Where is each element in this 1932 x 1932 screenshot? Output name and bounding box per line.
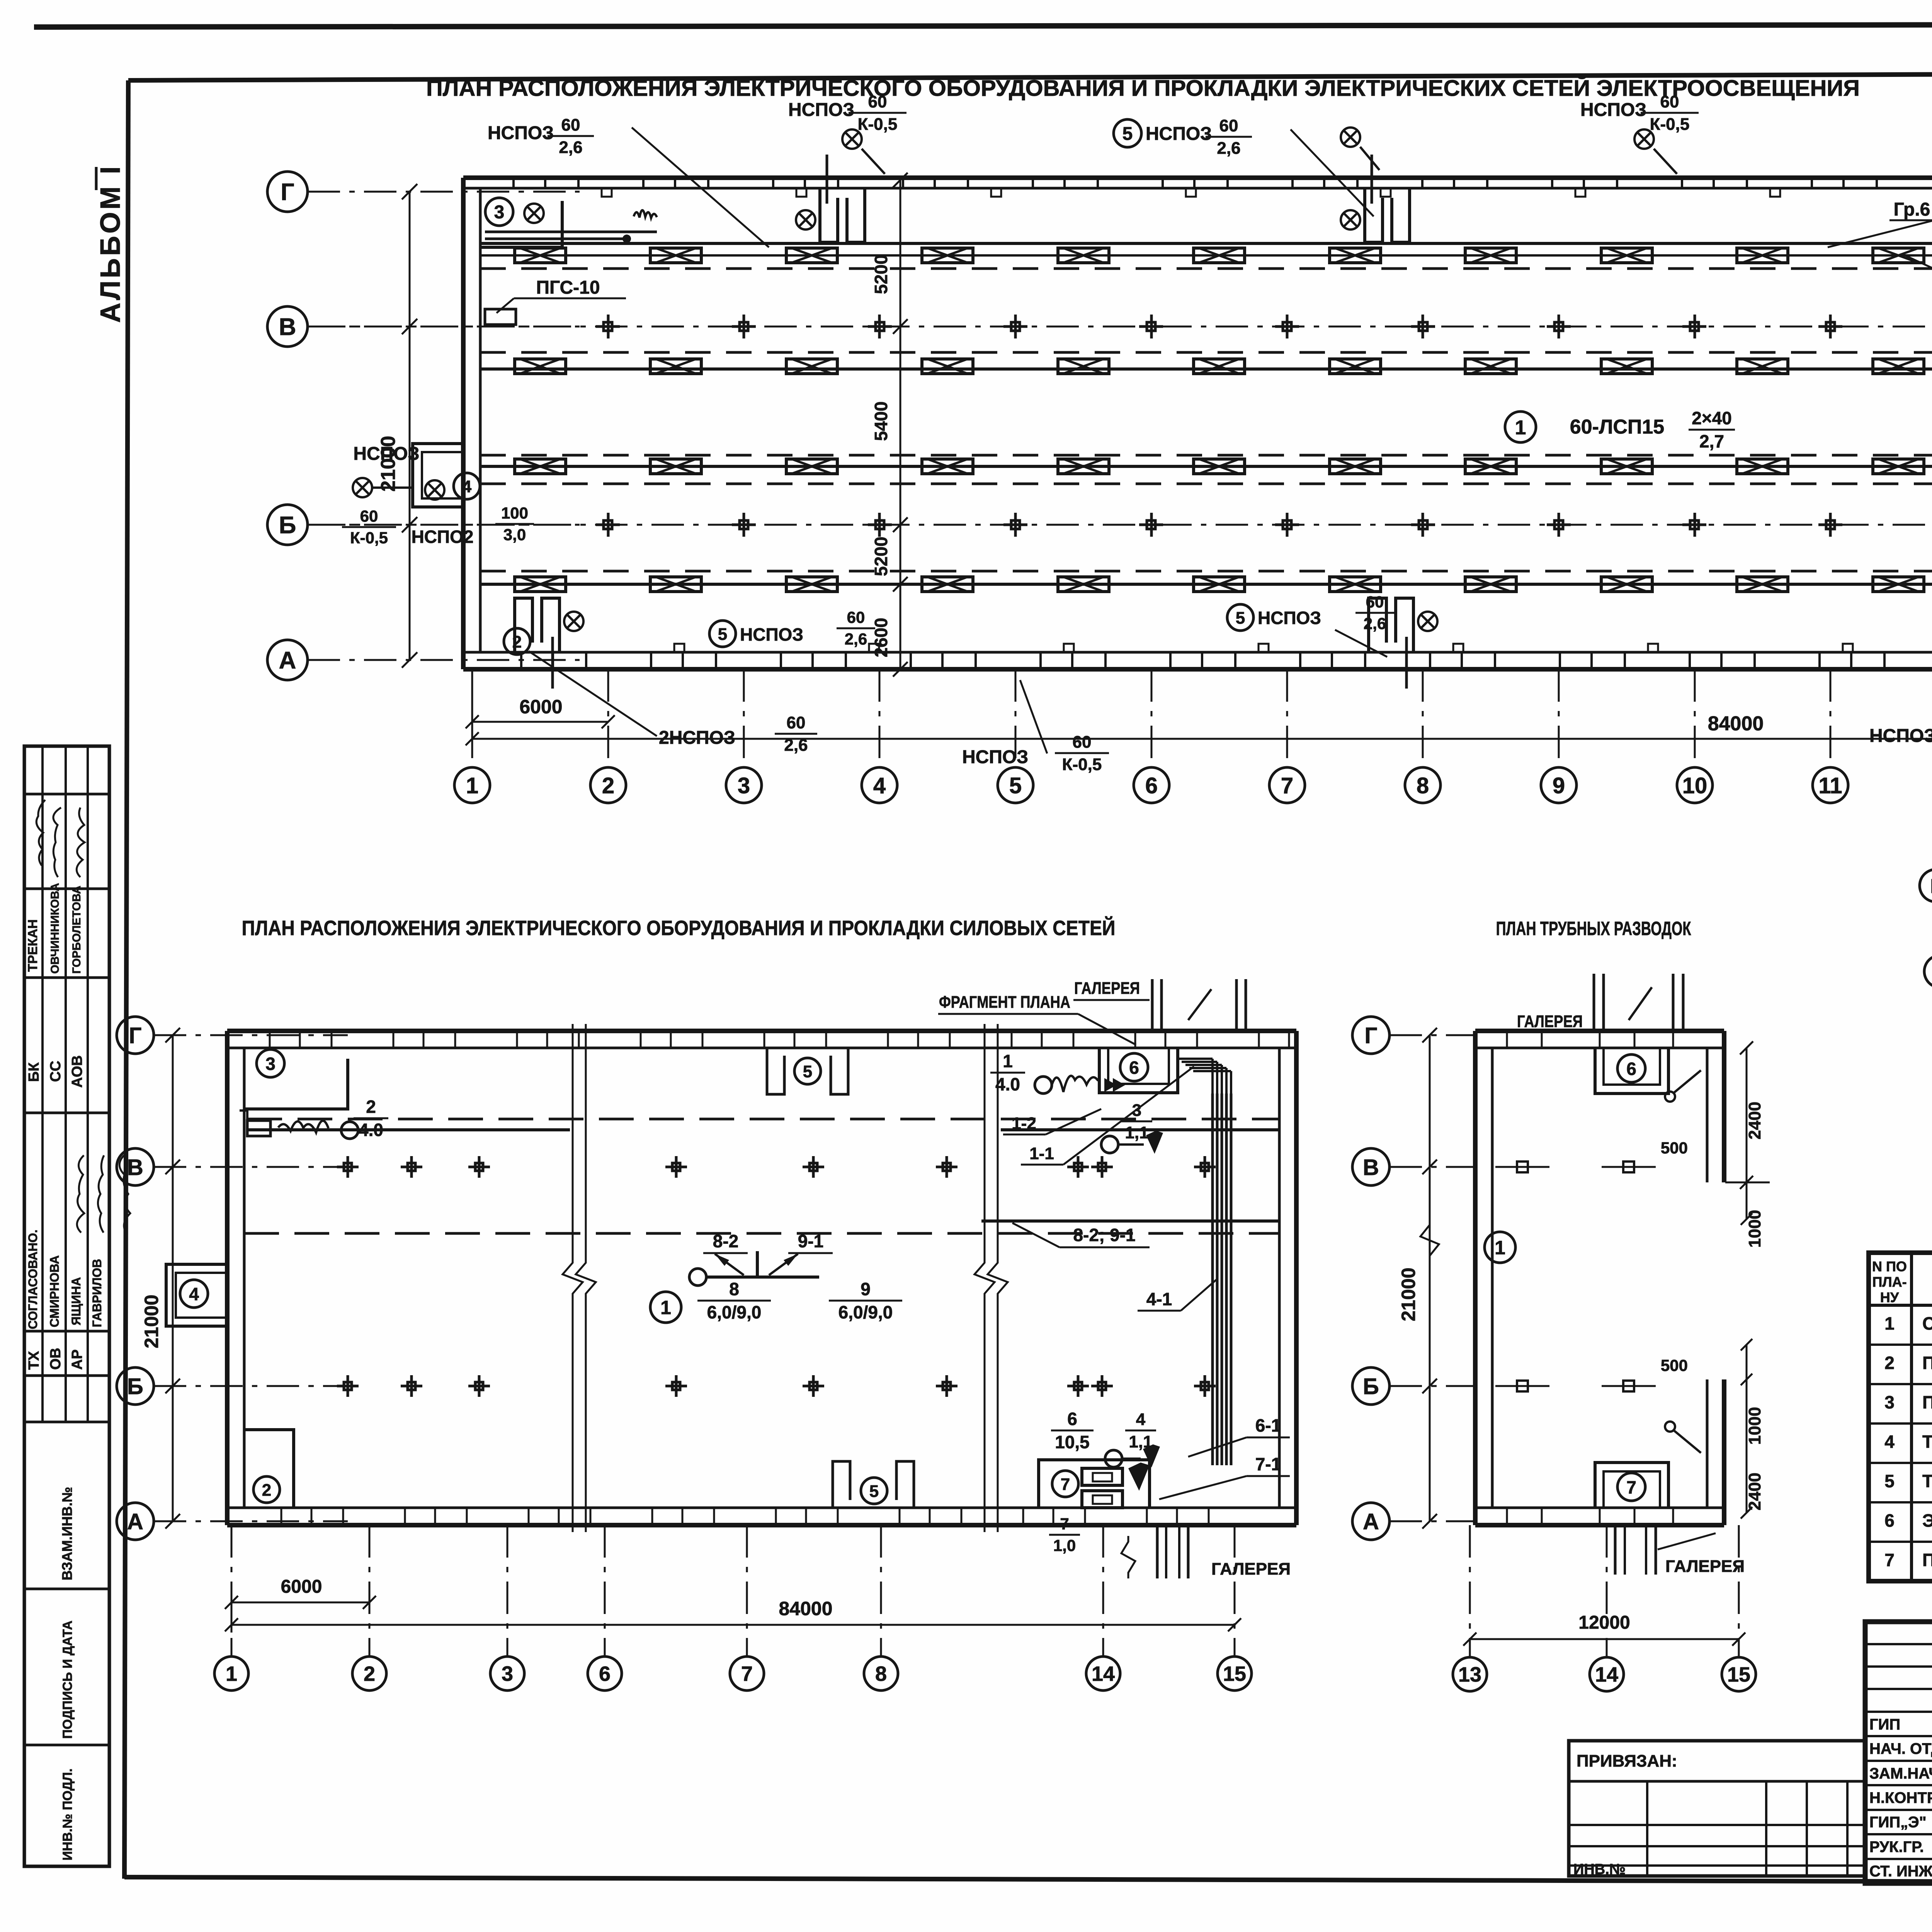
svg-text:ПРИВЯЗАН:: ПРИВЯЗАН: (1577, 1752, 1677, 1770)
svg-text:6,0/9,0: 6,0/9,0 (707, 1302, 762, 1322)
plan2 center distribution tree (689, 1269, 706, 1286)
plan3 left dim 21000 (1352, 1017, 1389, 1054)
svg-text:14: 14 (1595, 1663, 1618, 1686)
svg-text:1: 1 (1003, 1051, 1013, 1071)
dimension line 84000 top plan (472, 738, 1932, 740)
svg-text:7: 7 (1061, 1475, 1070, 1494)
svg-text:60: 60 (1073, 733, 1092, 752)
svg-text:2,6: 2,6 (1217, 139, 1240, 158)
svg-text:6: 6 (599, 1662, 611, 1685)
svg-text:5: 5 (718, 625, 727, 644)
svg-text:6: 6 (1884, 1510, 1895, 1531)
svg-text:84000: 84000 (1708, 713, 1764, 735)
svg-text:3: 3 (1132, 1101, 1141, 1120)
svg-text:100: 100 (501, 504, 528, 522)
svg-text:1-2: 1-2 (1012, 1114, 1036, 1133)
svg-text:ГАЛЕРЕЯ: ГАЛЕРЕЯ (1074, 979, 1140, 998)
svg-text:21000: 21000 (141, 1294, 162, 1348)
svg-text:К-0,5: К-0,5 (350, 529, 388, 547)
svg-text:ПОМЕЩЕНИЕ ДЛЯ ИНВЕНТАРЯ: ПОМЕЩЕНИЕ ДЛЯ ИНВЕНТАРЯ (1922, 1392, 1932, 1412)
svg-text:2400: 2400 (1745, 1102, 1764, 1139)
svg-text:8-2; 9-1: 8-2; 9-1 (1073, 1225, 1135, 1245)
svg-text:АЛЬБОМ I: АЛЬБОМ I (95, 164, 126, 323)
svg-text:3: 3 (265, 1054, 276, 1074)
svg-text:В: В (279, 314, 296, 340)
svg-text:11: 11 (1818, 773, 1842, 798)
wall window dividers bottom (520, 652, 522, 669)
svg-text:ИНВ.№: ИНВ.№ (1573, 1861, 1626, 1878)
svg-text:Б: Б (127, 1374, 143, 1399)
svg-text:К-0,5: К-0,5 (858, 115, 898, 134)
svg-text:1: 1 (1884, 1313, 1895, 1333)
svg-text:84000: 84000 (779, 1598, 832, 1619)
svg-text:АОВ: АОВ (69, 1055, 85, 1088)
plan2 left porch room 4 (166, 1264, 227, 1326)
svg-text:2,6: 2,6 (559, 138, 582, 157)
svg-text:7: 7 (1626, 1477, 1636, 1497)
svg-text:5: 5 (1236, 609, 1245, 628)
svg-text:1: 1 (466, 773, 478, 798)
tambour vestibules top wall (820, 188, 838, 242)
svg-text:НУ: НУ (1880, 1289, 1899, 1305)
plan3 switches right wall (1665, 1092, 1675, 1102)
svg-text:60: 60 (1219, 116, 1238, 135)
svg-text:2: 2 (364, 1662, 375, 1685)
fragment grid bubbles (1920, 869, 1932, 902)
svg-text:ГАЛЕРЕЯ: ГАЛЕРЕЯ (1211, 1560, 1291, 1578)
svg-text:3: 3 (502, 1662, 513, 1685)
svg-text:4: 4 (189, 1284, 199, 1304)
svg-text:15: 15 (1727, 1663, 1750, 1686)
plan3 room 6 (1595, 1048, 1668, 1094)
plan2 riser bundle (1211, 1094, 1214, 1465)
svg-text:К-0,5: К-0,5 (1062, 755, 1102, 774)
svg-text:ТХ: ТХ (26, 1351, 42, 1370)
plan3 top gallery (1593, 974, 1595, 1031)
plan2 row bubbles (117, 1017, 154, 1054)
svg-text:В: В (1363, 1155, 1379, 1180)
svg-text:ПЛА-: ПЛА- (1872, 1274, 1906, 1290)
svg-text:3: 3 (494, 202, 505, 223)
svg-text:4-1: 4-1 (1146, 1289, 1172, 1309)
svg-text:6: 6 (1626, 1059, 1636, 1079)
svg-text:2: 2 (366, 1097, 376, 1117)
svg-text:НСПОЗ: НСПОЗ (1580, 100, 1646, 120)
svg-text:8: 8 (729, 1279, 739, 1299)
svg-text:2600: 2600 (871, 618, 891, 657)
svg-text:1,0: 1,0 (1053, 1536, 1076, 1554)
plan2 bottom gallery (1156, 1525, 1159, 1578)
svg-text:ГАЛЕРЕЯ: ГАЛЕРЕЯ (1517, 1012, 1583, 1031)
plan3 right dims (1746, 1048, 1748, 1182)
plan2 column crosses (337, 1166, 359, 1168)
svg-text:4: 4 (1136, 1410, 1146, 1429)
plan2 room 2 bottom-left (244, 1430, 294, 1508)
svg-text:НСПОЗ: НСПОЗ (962, 747, 1028, 767)
svg-text:60: 60 (1366, 593, 1384, 611)
grid bubbles and leaders bottom of top plan (471, 669, 473, 767)
svg-text:Б: Б (279, 512, 296, 539)
svg-text:ГАВРИЛОВ: ГАВРИЛОВ (90, 1259, 104, 1327)
svg-text:2,6: 2,6 (845, 630, 867, 648)
dimension 6000 top plan (472, 721, 608, 723)
svg-text:5: 5 (1884, 1471, 1895, 1491)
wall window dividers top (512, 178, 515, 188)
svg-text:5: 5 (869, 1482, 879, 1501)
svg-text:НАЧ. ОТД: НАЧ. ОТД (1869, 1740, 1932, 1757)
sheet top edge line (34, 24, 1932, 27)
svg-text:4.0: 4.0 (359, 1120, 383, 1140)
svg-text:ЗАМ.НАЧ.: ЗАМ.НАЧ. (1869, 1765, 1932, 1782)
room 3 upper-left (480, 201, 562, 247)
svg-text:5400: 5400 (871, 401, 891, 441)
privyazan block (1569, 1741, 1865, 1876)
svg-text:1: 1 (1515, 417, 1526, 439)
svg-text:3,0: 3,0 (503, 526, 526, 544)
svg-text:4.0: 4.0 (995, 1074, 1020, 1094)
svg-text:4: 4 (873, 773, 886, 798)
svg-text:8: 8 (875, 1662, 887, 1685)
svg-text:ПОМЕЩЕНИЕ ДЛЯ ВЭП-600: ПОМЕЩЕНИЕ ДЛЯ ВЭП-600 (1922, 1550, 1932, 1570)
svg-text:БК: БК (26, 1062, 42, 1082)
svg-text:6: 6 (1129, 1058, 1139, 1078)
interior vertical dim chain (900, 180, 901, 669)
svg-text:ПЛАН РАСПОЛОЖЕНИЯ ЭЛЕКТРИЧЕСКО: ПЛАН РАСПОЛОЖЕНИЯ ЭЛЕКТРИЧЕСКОГО ОБОРУДО… (426, 76, 1860, 101)
svg-text:8-2: 8-2 (713, 1231, 738, 1251)
plan3 row marks (1517, 1162, 1528, 1172)
plan2 room 7 bottom right (1039, 1460, 1150, 1508)
plan3 room 7 (1595, 1463, 1668, 1508)
svg-text:2400: 2400 (1745, 1473, 1764, 1510)
svg-text:2: 2 (512, 633, 522, 651)
svg-text:ГАЛЕРЕЯ: ГАЛЕРЕЯ (1665, 1557, 1745, 1576)
plan2 room 1 (650, 1292, 681, 1323)
row bubbles left of top plan (267, 172, 308, 212)
svg-text:СТ. ИНЖ.: СТ. ИНЖ. (1869, 1863, 1932, 1880)
plan2 room 6 top right (1099, 1048, 1178, 1093)
fixture type label 60-LSP15 (1505, 412, 1536, 442)
svg-text:ГОРБОЛЕТОВА: ГОРБОЛЕТОВА (70, 886, 83, 974)
svg-text:3: 3 (738, 773, 750, 798)
svg-text:60: 60 (787, 713, 806, 732)
svg-text:5: 5 (803, 1062, 812, 1081)
svg-text:1,1: 1,1 (1125, 1123, 1148, 1142)
svg-text:СС: СС (48, 1061, 64, 1082)
motor and wire 2/4.0 (247, 1121, 270, 1136)
svg-text:НСПОЗ: НСПОЗ (788, 100, 854, 120)
svg-text:НСПОЗ: НСПОЗ (1146, 124, 1212, 144)
left stamp strip (24, 746, 109, 1866)
svg-text:ИНВ.№ ПОДЛ.: ИНВ.№ ПОДЛ. (60, 1769, 75, 1861)
svg-text:9-1: 9-1 (798, 1231, 823, 1251)
svg-text:ТАМБУР / 2 ПОМЕЩЕНИЯ /: ТАМБУР / 2 ПОМЕЩЕНИЯ / (1922, 1432, 1932, 1452)
svg-text:ПГС-10: ПГС-10 (536, 277, 600, 298)
feeder wires upper-left (485, 231, 657, 233)
svg-text:60: 60 (847, 608, 865, 626)
svg-text:ПОДПИСЬ И ДАТА: ПОДПИСЬ И ДАТА (60, 1621, 75, 1739)
svg-text:5200: 5200 (871, 537, 891, 576)
svg-text:500: 500 (1661, 1139, 1688, 1157)
interior lighting rows (480, 242, 1932, 245)
vertical dim 21000 (409, 192, 411, 660)
svg-text:N ПО: N ПО (1872, 1259, 1907, 1274)
svg-text:4: 4 (1884, 1432, 1895, 1452)
svg-text:21000: 21000 (377, 436, 400, 492)
svg-text:6000: 6000 (519, 696, 562, 718)
svg-text:6-1: 6-1 (1255, 1415, 1281, 1435)
svg-text:А: А (127, 1509, 143, 1534)
svg-text:РУК.ГР.: РУК.ГР. (1869, 1838, 1924, 1855)
plan2 top gallery (1151, 979, 1154, 1031)
svg-text:7: 7 (1060, 1515, 1069, 1533)
svg-text:ГИП„Э": ГИП„Э" (1869, 1814, 1927, 1831)
svg-text:СЕКЦИИ ДЛЯ СОДЕРЖАНИЯ МОЛОДНЯК: СЕКЦИИ ДЛЯ СОДЕРЖАНИЯ МОЛОДНЯКА (1922, 1313, 1932, 1333)
svg-text:2: 2 (602, 773, 614, 798)
tambour vestibules bottom wall (515, 598, 532, 652)
svg-text:Г: Г (129, 1023, 142, 1048)
svg-text:Гр.6: Гр.6 (1894, 199, 1930, 220)
svg-text:НСПОЗ: НСПОЗ (1258, 608, 1321, 628)
plan2 grid bubbles bottom (231, 1525, 233, 1656)
svg-text:Б: Б (1363, 1374, 1379, 1399)
svg-text:НСПОЗ: НСПОЗ (1869, 726, 1932, 746)
plan3 bottom gallery (1614, 1525, 1617, 1575)
svg-text:500: 500 (1661, 1356, 1688, 1374)
svg-text:ПОМЕЩЕНИЕ ДЛЯ КОРМОВ: ПОМЕЩЕНИЕ ДЛЯ КОРМОВ (1922, 1353, 1932, 1373)
svg-text:60: 60 (360, 507, 378, 525)
svg-text:2,6: 2,6 (1364, 614, 1386, 633)
svg-text:НСПО2: НСПО2 (412, 527, 474, 547)
svg-text:2×40: 2×40 (1692, 408, 1732, 428)
plan2 break lines (563, 1024, 583, 1532)
svg-text:1: 1 (660, 1297, 671, 1318)
svg-text:13: 13 (1458, 1663, 1481, 1686)
building outline top plan (463, 175, 1932, 180)
svg-text:ЯЩИНА: ЯЩИНА (69, 1277, 83, 1325)
svg-text:60-ЛСП15: 60-ЛСП15 (1570, 416, 1664, 438)
plan2 room 3 (244, 1059, 348, 1109)
plan3 grid bubbles bottom (1469, 1525, 1471, 1657)
svg-text:7: 7 (741, 1662, 753, 1685)
svg-text:1000: 1000 (1745, 1210, 1764, 1248)
svg-text:8: 8 (1417, 773, 1429, 798)
plan3 building outline (1475, 1029, 1724, 1033)
svg-text:2: 2 (1884, 1353, 1895, 1373)
plan3 room 1 (1485, 1232, 1515, 1263)
svg-text:6: 6 (1067, 1409, 1077, 1429)
svg-text:12000: 12000 (1578, 1612, 1630, 1633)
svg-text:5: 5 (1122, 124, 1133, 144)
svg-text:СМИРНОВА: СМИРНОВА (48, 1255, 61, 1327)
plan2 dims (231, 1602, 369, 1604)
svg-text:НСПОЗ: НСПОЗ (488, 123, 554, 143)
bottom labels top plan (504, 628, 530, 655)
svg-text:Г: Г (1930, 875, 1932, 898)
svg-text:5: 5 (1009, 773, 1022, 798)
svg-text:К-0,5: К-0,5 (1650, 115, 1690, 134)
plan2 building outline (227, 1029, 1296, 1033)
svg-text:21000: 21000 (1398, 1267, 1419, 1321)
svg-text:5200: 5200 (871, 255, 891, 294)
plan3 wall dividers (1506, 1031, 1508, 1048)
svg-text:Н.КОНТР.: Н.КОНТР. (1869, 1789, 1932, 1806)
svg-text:ОВЧИННИКОВА: ОВЧИННИКОВА (49, 883, 61, 974)
svg-text:10: 10 (1682, 773, 1708, 798)
svg-text:А: А (1363, 1509, 1379, 1534)
svg-text:9: 9 (861, 1279, 871, 1299)
svg-text:ГИП: ГИП (1869, 1716, 1900, 1733)
sheet frame border (128, 72, 1932, 80)
svg-text:10,5: 10,5 (1055, 1432, 1090, 1452)
plan2 feeders (247, 1118, 1279, 1121)
svg-text:АР: АР (69, 1349, 85, 1370)
svg-text:15: 15 (1223, 1662, 1246, 1685)
svg-text:2: 2 (262, 1481, 271, 1500)
svg-text:Г: Г (281, 179, 294, 206)
svg-text:ПЛАН РАСПОЛОЖЕНИЯ ЭЛЕКТРИЧЕСКО: ПЛАН РАСПОЛОЖЕНИЯ ЭЛЕКТРИЧЕСКОГО ОБОРУДО… (242, 916, 1116, 940)
svg-text:6: 6 (1145, 773, 1158, 798)
svg-text:СОГЛАСОВАНО.: СОГЛАСОВАНО. (26, 1230, 40, 1329)
svg-text:ЭЛЕКТРОЩИТОВАЯ: ЭЛЕКТРОЩИТОВАЯ (1922, 1510, 1932, 1531)
svg-text:9: 9 (1553, 773, 1565, 798)
svg-text:1: 1 (226, 1662, 237, 1685)
left entrance porch (413, 444, 463, 507)
svg-text:ПЛАН ТРУБНЫХ РАЗВОДОК: ПЛАН ТРУБНЫХ РАЗВОДОК (1496, 918, 1691, 939)
svg-text:60: 60 (1660, 92, 1679, 111)
svg-text:1000: 1000 (1745, 1407, 1764, 1445)
svg-text:6000: 6000 (281, 1577, 322, 1597)
svg-text:7-1: 7-1 (1255, 1454, 1281, 1474)
svg-text:60: 60 (868, 92, 887, 111)
svg-text:Г: Г (1365, 1023, 1378, 1048)
svg-text:14: 14 (1092, 1662, 1115, 1685)
svg-text:7: 7 (1884, 1550, 1895, 1570)
svg-text:ТРЕКАН: ТРЕКАН (26, 919, 40, 972)
svg-text:7: 7 (1281, 773, 1293, 798)
plan2 room 5 tambours (767, 1048, 784, 1094)
svg-text:ТАМБУР / 6 ПОМЕЩЕНИЙ /: ТАМБУР / 6 ПОМЕЩЕНИЙ / (1922, 1471, 1932, 1491)
svg-text:1-1: 1-1 (1029, 1144, 1054, 1163)
svg-text:4: 4 (462, 477, 472, 496)
svg-text:60: 60 (561, 116, 580, 134)
svg-text:3: 3 (1884, 1392, 1895, 1412)
svg-text:6,0/9,0: 6,0/9,0 (838, 1302, 893, 1322)
svg-text:ОВ: ОВ (48, 1348, 64, 1370)
svg-text:А: А (279, 647, 296, 674)
svg-text:2,7: 2,7 (1699, 431, 1724, 451)
svg-text:1: 1 (1495, 1237, 1505, 1259)
svg-text:ФРАГМЕНТ ПЛАНА: ФРАГМЕНТ ПЛАНА (939, 993, 1070, 1012)
svg-text:ВЗАМ.ИНВ.№: ВЗАМ.ИНВ.№ (59, 1487, 75, 1580)
svg-text:НСПОЗ: НСПОЗ (740, 624, 803, 645)
plan2 wall dividers (269, 1031, 271, 1048)
svg-text:В: В (127, 1155, 143, 1180)
